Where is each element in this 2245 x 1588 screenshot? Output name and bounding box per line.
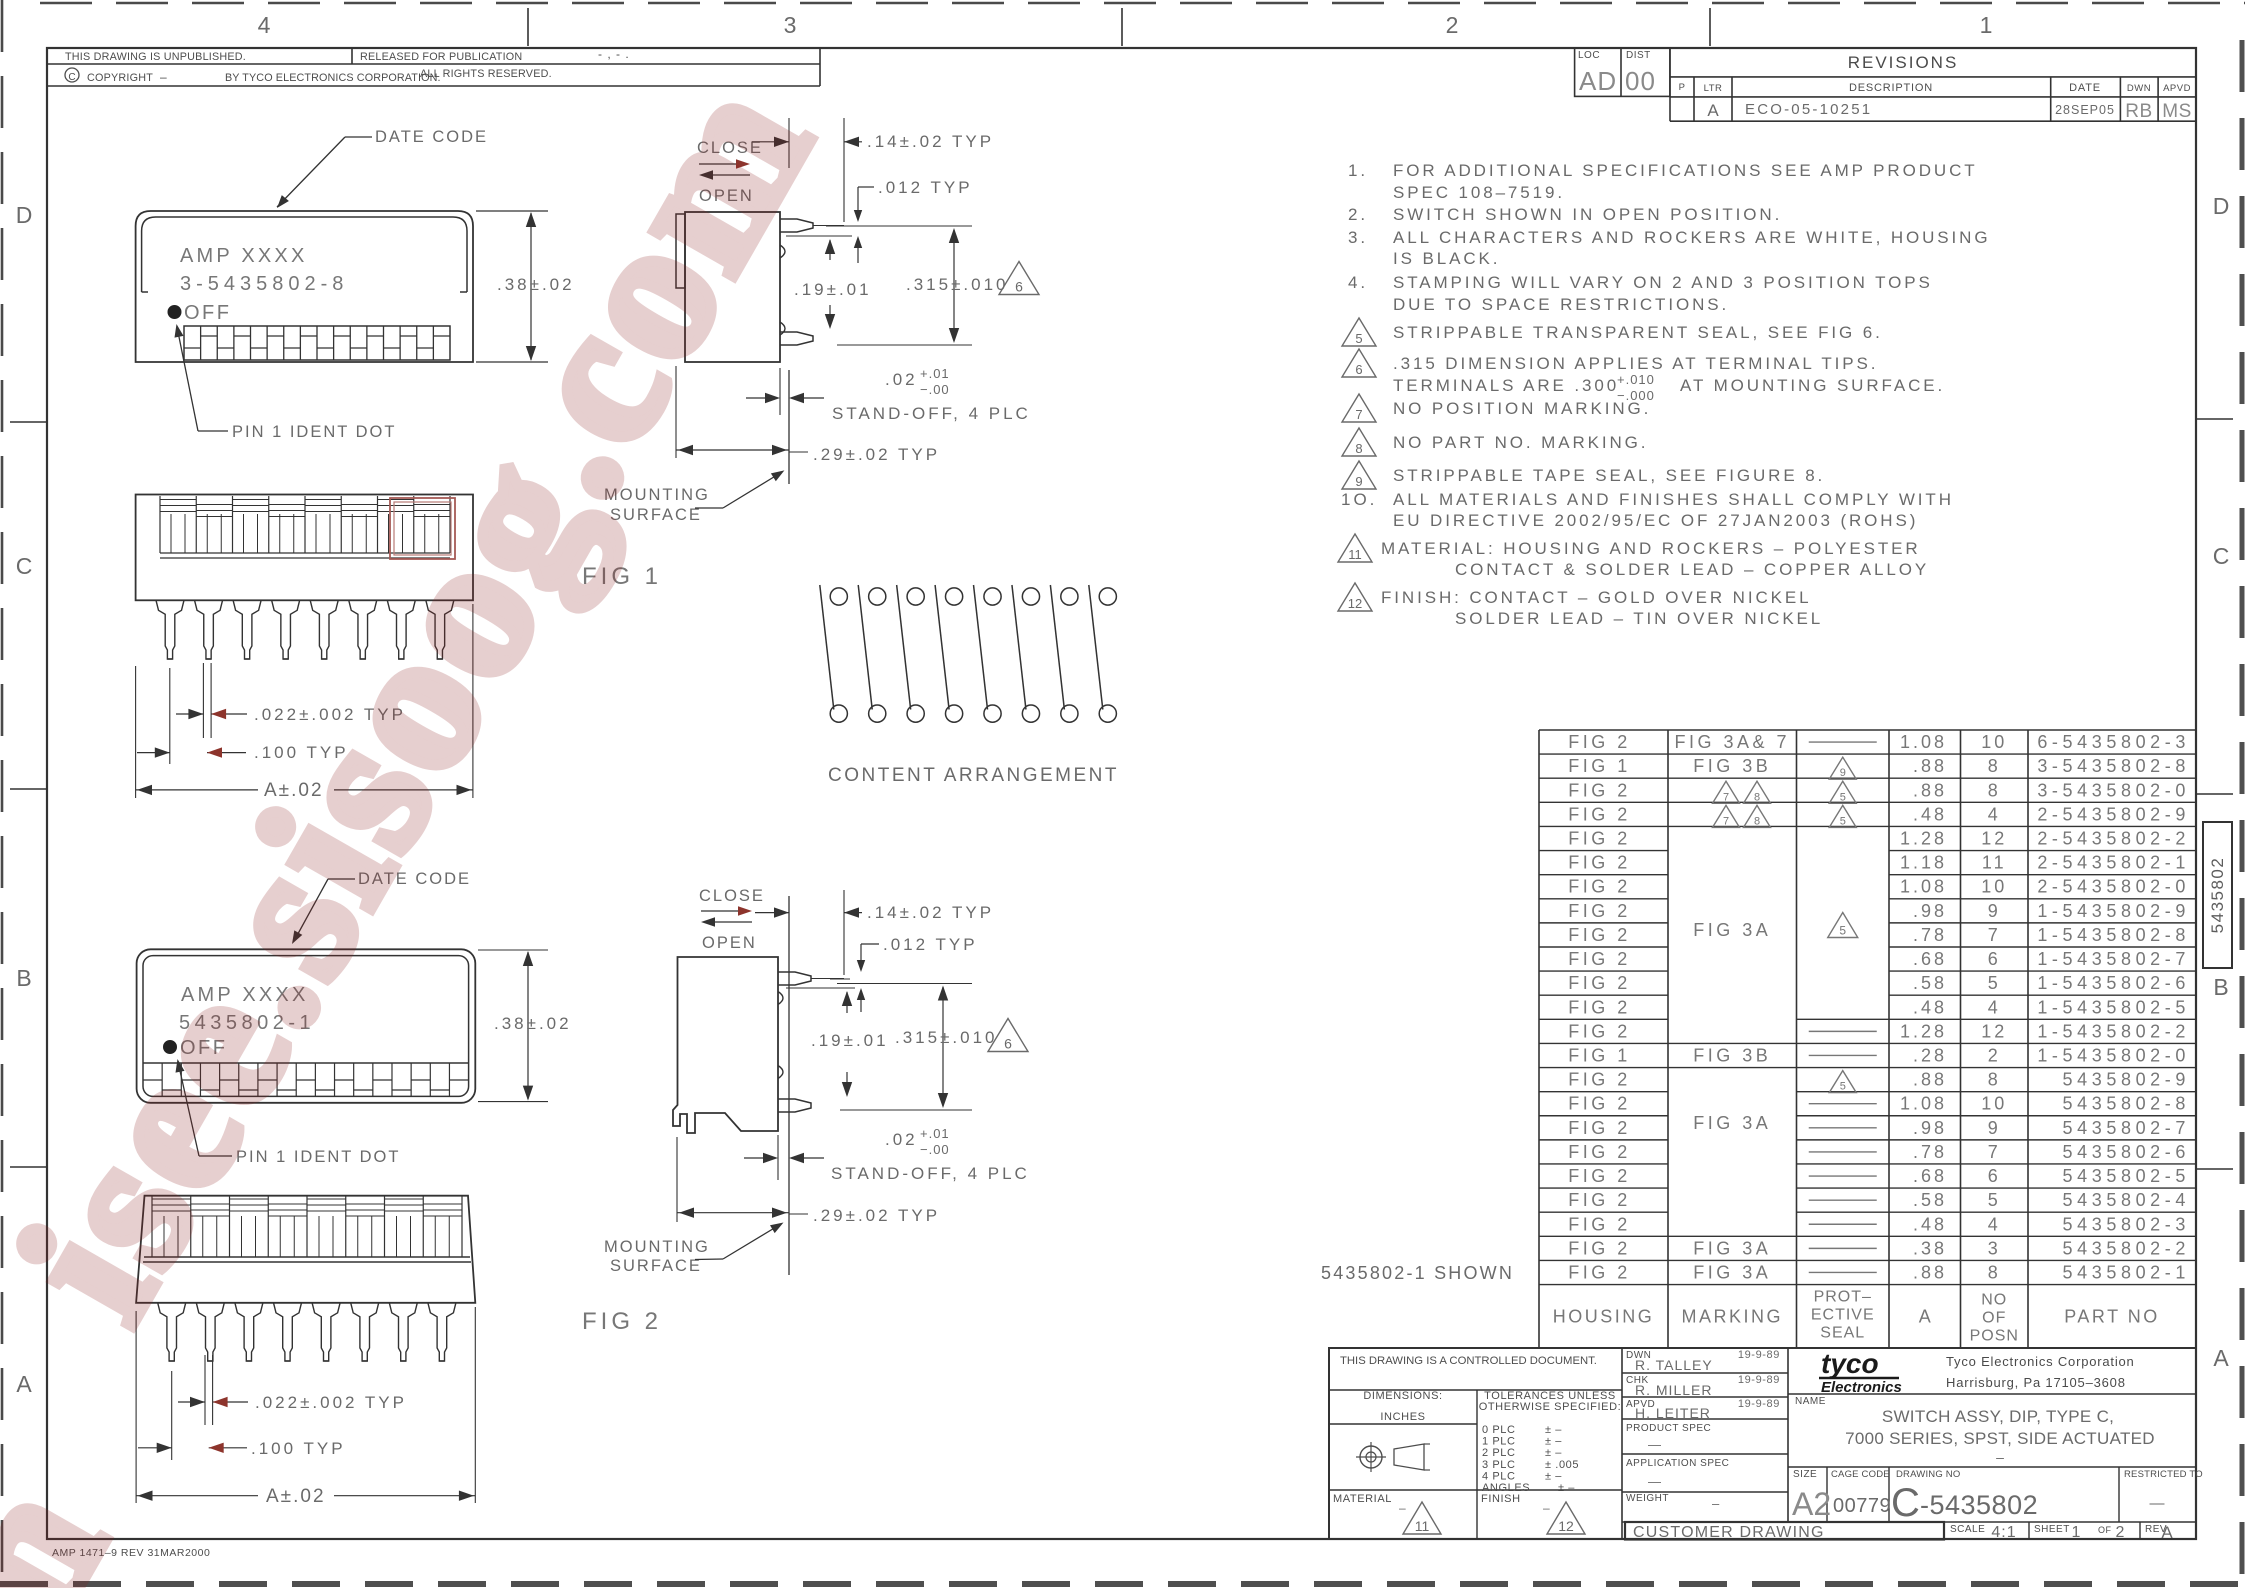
svg-text:+.010: +.010 [1617, 372, 1655, 387]
svg-text:5: 5 [1840, 815, 1846, 827]
svg-text:CLOSE: CLOSE [699, 887, 765, 905]
svg-text:CAGE CODE: CAGE CODE [1831, 1469, 1890, 1480]
svg-text:11: 11 [1982, 853, 2007, 873]
svg-text:.38±.02: .38±.02 [494, 1014, 572, 1033]
svg-text:FIG 3B: FIG 3B [1693, 1045, 1771, 1065]
svg-text:SOLDER LEAD – TIN OVER NI: SOLDER LEAD – TIN OVER NICKEL [1455, 609, 1823, 628]
svg-text:3-5435802-8: 3-5435802-8 [180, 273, 348, 295]
svg-text:5435802-4: 5435802-4 [2063, 1190, 2190, 1210]
svg-text:FIG 2: FIG 2 [1568, 1021, 1631, 1041]
svg-text:FIG 2: FIG 2 [1568, 780, 1631, 800]
svg-text:–: – [1399, 1501, 1406, 1515]
svg-text:EU DIRECTIVE 2002/95/EC OF: EU DIRECTIVE 2002/95/EC OF 27JAN2003 (RO… [1393, 511, 1918, 530]
svg-text:B: B [2213, 974, 2228, 1000]
svg-text:.98: .98 [1913, 1118, 1947, 1138]
svg-text:6: 6 [1015, 279, 1023, 295]
svg-text:tyco: tyco [1821, 1348, 1879, 1379]
svg-text:.78: .78 [1913, 1142, 1947, 1162]
svg-text:8: 8 [1988, 780, 2001, 800]
svg-text:2-5435802-9: 2-5435802-9 [2037, 804, 2190, 824]
svg-text:5435802-5: 5435802-5 [2063, 1166, 2190, 1186]
svg-text:± –: ± – [1545, 1436, 1562, 1448]
svg-text:10: 10 [1981, 732, 2007, 752]
svg-text:FIG 2: FIG 2 [1568, 1214, 1631, 1234]
svg-text:2: 2 [1988, 1045, 2001, 1065]
svg-text:AD: AD [1579, 66, 1617, 96]
svg-text:9: 9 [1355, 474, 1362, 489]
svg-text:9: 9 [1988, 1118, 2001, 1138]
svg-text:± –: ± – [1545, 1424, 1562, 1436]
svg-text:A: A [1707, 101, 1719, 120]
svg-text:3: 3 [1988, 1238, 2001, 1258]
svg-text:.38: .38 [1913, 1238, 1947, 1258]
svg-text:5435802-7: 5435802-7 [2063, 1118, 2190, 1138]
svg-text:NO: NO [1981, 1292, 2007, 1309]
svg-text:DESCRIPTION: DESCRIPTION [1849, 82, 1933, 94]
svg-text:SWITCH SHOWN IN OPEN POSIT: SWITCH SHOWN IN OPEN POSITION. [1393, 205, 1782, 224]
svg-text:.012 TYP: .012 TYP [878, 178, 973, 197]
svg-text:STRIPPABLE TAPE SEAL, SEE: STRIPPABLE TAPE SEAL, SEE FIGURE 8. [1393, 466, 1825, 485]
svg-text:6: 6 [1004, 1036, 1012, 1052]
svg-text:4: 4 [1988, 1214, 2001, 1234]
svg-text:FIG 2: FIG 2 [1568, 1094, 1631, 1114]
svg-text:LOC: LOC [1578, 50, 1600, 61]
svg-text:FIG 2: FIG 2 [1568, 973, 1631, 993]
svg-text:FIG 3B: FIG 3B [1693, 756, 1771, 776]
svg-text:2-5435802-0: 2-5435802-0 [2037, 877, 2190, 897]
svg-text:ECTIVE: ECTIVE [1811, 1307, 1875, 1324]
svg-text:SPEC 108–7519.: SPEC 108–7519. [1393, 183, 1565, 202]
svg-text:NAME: NAME [1795, 1396, 1826, 1407]
svg-text:5435802-9: 5435802-9 [2063, 1070, 2190, 1090]
svg-text:CUSTOMER DRAWING: CUSTOMER DRAWING [1633, 1524, 1825, 1541]
svg-text:5: 5 [1355, 331, 1362, 346]
svg-text:1-5435802-7: 1-5435802-7 [2037, 949, 2190, 969]
svg-text:1-5435802-6: 1-5435802-6 [2037, 973, 2190, 993]
svg-text:4.: 4. [1348, 273, 1368, 292]
svg-text:NO PART NO. MARKING.: NO PART NO. MARKING. [1393, 433, 1648, 452]
svg-text:ALL CHARACTERS AND ROCKERS: ALL CHARACTERS AND ROCKERS ARE WHITE, HO… [1393, 228, 1990, 247]
svg-text:FIG 1: FIG 1 [1568, 756, 1631, 776]
svg-text:2-5435802-2: 2-5435802-2 [2037, 828, 2190, 848]
svg-text:Harrisburg, Pa 17105–3608: Harrisburg, Pa 17105–3608 [1946, 1375, 2126, 1390]
svg-text:COPYRIGHT: COPYRIGHT [87, 72, 153, 84]
svg-text:7: 7 [1988, 1142, 2001, 1162]
svg-text:FIG 1: FIG 1 [1568, 1045, 1631, 1065]
svg-text:+.01: +.01 [920, 366, 950, 381]
svg-text:OPEN: OPEN [702, 934, 757, 952]
svg-text:INCHES: INCHES [1380, 1411, 1425, 1423]
svg-text:1.: 1. [1348, 161, 1368, 180]
svg-text:- , - .: - , - . [598, 47, 630, 61]
svg-text:5: 5 [1988, 973, 2001, 993]
svg-text:—: — [1648, 1474, 1661, 1489]
svg-text:3-5435802-0: 3-5435802-0 [2037, 780, 2190, 800]
svg-text:MARKING: MARKING [1681, 1306, 1783, 1326]
svg-text:C: C [16, 553, 33, 579]
svg-text:SURFACE: SURFACE [610, 1257, 702, 1275]
svg-text:.29±.02 TYP: .29±.02 TYP [813, 1206, 940, 1225]
svg-text:POSN: POSN [1970, 1328, 2019, 1345]
svg-text:5: 5 [1839, 924, 1846, 938]
svg-text:DIST: DIST [1626, 50, 1651, 61]
svg-text:5435802-8: 5435802-8 [2063, 1094, 2190, 1114]
svg-text:FIG 2: FIG 2 [1568, 1166, 1631, 1186]
svg-text:.58: .58 [1913, 973, 1947, 993]
svg-text:MATERIAL: HOUSING AND ROCKE: MATERIAL: HOUSING AND ROCKERS – POLYESTE… [1381, 539, 1921, 558]
svg-text:A: A [2161, 1523, 2173, 1542]
svg-text:CONTACT & SOLDER LEAD – C: CONTACT & SOLDER LEAD – COPPER ALLOY [1455, 560, 1929, 579]
svg-text:11: 11 [1415, 1518, 1430, 1534]
svg-text:FINISH: CONTACT – GOLD OVE: FINISH: CONTACT – GOLD OVER NICKEL [1381, 588, 1811, 607]
svg-text:.78: .78 [1913, 925, 1947, 945]
svg-text:SHEET: SHEET [2034, 1524, 2070, 1535]
svg-text:4: 4 [1988, 997, 2001, 1017]
svg-text:3.: 3. [1348, 228, 1368, 247]
svg-text:FIG 3A: FIG 3A [1693, 920, 1771, 940]
svg-text:THIS DRAWING IS A CONTROLL: THIS DRAWING IS A CONTROLLED DOCUMENT. [1340, 1355, 1597, 1367]
svg-text:3 PLC: 3 PLC [1482, 1459, 1516, 1471]
svg-text:+.01: +.01 [920, 1126, 950, 1141]
svg-text:9: 9 [1988, 901, 2001, 921]
svg-text:FIG 2: FIG 2 [1568, 1262, 1631, 1282]
svg-text:5435802-3: 5435802-3 [2063, 1214, 2190, 1234]
svg-text:7: 7 [1988, 925, 2001, 945]
svg-text:1-5435802-8: 1-5435802-8 [2037, 925, 2190, 945]
svg-text:DWN: DWN [2127, 83, 2151, 94]
svg-text:5435802-1 SHOWN: 5435802-1 SHOWN [1321, 1263, 1514, 1283]
svg-text:.68: .68 [1913, 949, 1947, 969]
svg-text:2: 2 [2116, 1524, 2125, 1541]
svg-text:C: C [2213, 543, 2230, 569]
svg-text:DUE TO SPACE RESTRICTIONS.: DUE TO SPACE RESTRICTIONS. [1393, 295, 1729, 314]
svg-text:00: 00 [1625, 66, 1656, 96]
svg-text:IS BLACK.: IS BLACK. [1393, 249, 1500, 268]
svg-text:PIN 1 IDENT DOT: PIN 1 IDENT DOT [232, 423, 396, 441]
svg-text:FIG 2: FIG 2 [1568, 1118, 1631, 1138]
svg-text:MATERIAL: MATERIAL [1333, 1493, 1392, 1505]
svg-text:FIG 2: FIG 2 [1568, 853, 1631, 873]
svg-text:RESTRICTED TO: RESTRICTED TO [2124, 1469, 2203, 1480]
svg-text:REVISIONS: REVISIONS [1848, 53, 1959, 72]
svg-text:7: 7 [1723, 791, 1729, 803]
svg-text:–: – [1996, 1449, 2004, 1465]
svg-text:LTR: LTR [1704, 83, 1723, 94]
svg-text:4: 4 [1988, 804, 2001, 824]
svg-text:R. MILLER: R. MILLER [1635, 1382, 1712, 1398]
svg-text:OF: OF [2098, 1525, 2112, 1535]
svg-text:FINISH: FINISH [1481, 1493, 1521, 1505]
svg-text:D: D [2213, 193, 2230, 219]
svg-text:.02: .02 [885, 1130, 918, 1149]
svg-text:00779: 00779 [1833, 1495, 1891, 1517]
svg-text:1.08: 1.08 [1900, 877, 1947, 897]
svg-text:OTHERWISE SPECIFIED:: OTHERWISE SPECIFIED: [1479, 1401, 1622, 1413]
svg-text:—: — [1648, 1437, 1661, 1452]
svg-text:.88: .88 [1913, 756, 1947, 776]
svg-text:PROT–: PROT– [1814, 1289, 1872, 1306]
svg-text:TERMINALS ARE .300: TERMINALS ARE .300 [1393, 376, 1619, 395]
svg-text:19-9-89: 19-9-89 [1738, 1398, 1780, 1410]
svg-text:7: 7 [1723, 815, 1729, 827]
svg-text:FIG 2: FIG 2 [1568, 732, 1631, 752]
svg-text:8: 8 [1988, 1070, 2001, 1090]
svg-text:OFF: OFF [184, 302, 232, 324]
svg-text:.98: .98 [1913, 901, 1947, 921]
svg-text:RELEASED FOR PUBLICATION: RELEASED FOR PUBLICATION [360, 51, 522, 63]
svg-text:5: 5 [1840, 1081, 1846, 1093]
svg-text:1-5435802-0: 1-5435802-0 [2037, 1045, 2190, 1065]
svg-text:2: 2 [1446, 12, 1459, 38]
svg-text:4 PLC: 4 PLC [1482, 1470, 1516, 1482]
svg-text:FIG 2: FIG 2 [1568, 804, 1631, 824]
svg-text:11: 11 [1348, 547, 1362, 562]
svg-text:.48: .48 [1913, 804, 1947, 824]
svg-text:.68: .68 [1913, 1166, 1947, 1186]
svg-text:8: 8 [1988, 1262, 2001, 1282]
svg-text:.14±.02 TYP: .14±.02 TYP [867, 132, 994, 151]
svg-text:FIG 3A: FIG 3A [1693, 1113, 1771, 1133]
svg-text:2 PLC: 2 PLC [1482, 1447, 1516, 1459]
svg-text:STRIPPABLE TRANSPARENT SEAL,: STRIPPABLE TRANSPARENT SEAL, SEE FIG 6. [1393, 323, 1883, 342]
svg-text:.88: .88 [1913, 780, 1947, 800]
svg-text:ECO-05-10251: ECO-05-10251 [1745, 101, 1872, 118]
svg-text:.88: .88 [1913, 1070, 1947, 1090]
svg-text:5435802: 5435802 [2208, 857, 2227, 934]
svg-text:12: 12 [1981, 1021, 2007, 1041]
svg-text:.28: .28 [1913, 1045, 1947, 1065]
svg-text:.48: .48 [1913, 1214, 1947, 1234]
svg-text:1.08: 1.08 [1900, 1094, 1947, 1114]
svg-text:—: — [2150, 1495, 2165, 1512]
svg-text:5435802-6: 5435802-6 [2063, 1142, 2190, 1162]
svg-text:3: 3 [784, 12, 797, 38]
svg-text:NO POSITION MARKING.: NO POSITION MARKING. [1393, 399, 1651, 418]
svg-text:.315±.010: .315±.010 [906, 275, 1009, 294]
svg-text:5: 5 [1840, 791, 1846, 803]
svg-text:BY TYCO ELECTRONICS CORPORATIO: BY TYCO ELECTRONICS CORPORATION. [225, 72, 441, 84]
svg-text:A2: A2 [1792, 1486, 1831, 1522]
svg-text:-5435802: -5435802 [1920, 1490, 2038, 1520]
svg-text:.88: .88 [1913, 1262, 1947, 1282]
svg-text:1.08: 1.08 [1900, 732, 1947, 752]
svg-text:APPLICATION SPEC: APPLICATION SPEC [1626, 1458, 1729, 1469]
svg-text:± –: ± – [1545, 1470, 1562, 1482]
svg-text:FIG 2: FIG 2 [1568, 1070, 1631, 1090]
svg-text:MS: MS [2162, 101, 2192, 122]
svg-text:.315 DIMENSION APPLIES AT: .315 DIMENSION APPLIES AT TERMINAL TIPS. [1393, 354, 1878, 373]
svg-text:10: 10 [1981, 1094, 2007, 1114]
svg-text:FIG 2: FIG 2 [1568, 1238, 1631, 1258]
svg-text:FIG 2: FIG 2 [1568, 1190, 1631, 1210]
svg-text:STAMPING WILL VARY ON 2 A: STAMPING WILL VARY ON 2 AND 3 POSITION T… [1393, 273, 1933, 292]
svg-text:STAND-OFF, 4 PLC: STAND-OFF, 4 PLC [831, 1164, 1030, 1183]
svg-text:8: 8 [1754, 815, 1760, 827]
svg-text:2-5435802-1: 2-5435802-1 [2037, 853, 2190, 873]
svg-text:−.00: −.00 [920, 1142, 950, 1157]
svg-text:28SEP05: 28SEP05 [2055, 103, 2115, 117]
svg-text:H. LEITER: H. LEITER [1635, 1405, 1711, 1421]
svg-text:SWITCH ASSY, DIP, TYPE C,: SWITCH ASSY, DIP, TYPE C, [1882, 1407, 2114, 1426]
svg-text:A: A [16, 1371, 32, 1397]
svg-text:± –: ± – [1558, 1482, 1575, 1494]
svg-text:APVD: APVD [2163, 83, 2191, 94]
svg-text:.19±.01: .19±.01 [794, 280, 872, 299]
svg-text:C: C [1891, 1481, 1920, 1525]
svg-text:12: 12 [1981, 828, 2007, 848]
svg-text:D: D [16, 202, 33, 228]
svg-text:FIG 2: FIG 2 [1568, 901, 1631, 921]
svg-text:A: A [1919, 1306, 1931, 1326]
svg-text:2.: 2. [1348, 205, 1368, 224]
svg-text:1.28: 1.28 [1900, 1021, 1947, 1041]
svg-text:FIG 2: FIG 2 [1568, 877, 1631, 897]
svg-text:DATE CODE: DATE CODE [375, 128, 488, 146]
svg-text:−.00: −.00 [920, 382, 950, 397]
svg-text:6: 6 [1355, 362, 1362, 377]
svg-text:3-5435802-8: 3-5435802-8 [2037, 756, 2190, 776]
svg-text:19-9-89: 19-9-89 [1738, 1349, 1780, 1361]
svg-text:6: 6 [1988, 1166, 2001, 1186]
svg-text:.02: .02 [885, 370, 918, 389]
svg-text:A: A [2213, 1345, 2229, 1371]
svg-text:5435802-1: 5435802-1 [2063, 1262, 2190, 1282]
svg-text:THIS DRAWING IS UNPUBLISHED: THIS DRAWING IS UNPUBLISHED. [65, 51, 246, 63]
svg-text:7000 SERIES, SPST, SIDE AC: 7000 SERIES, SPST, SIDE ACTUATED [1845, 1429, 2155, 1448]
svg-text:Tyco Electronics Corporation: Tyco Electronics Corporation [1946, 1354, 2135, 1369]
svg-text:FIG 3A: FIG 3A [1693, 1238, 1771, 1258]
svg-text:AT MOUNTING SURFACE.: AT MOUNTING SURFACE. [1680, 376, 1945, 395]
svg-text:0 PLC: 0 PLC [1482, 1424, 1516, 1436]
svg-text:6-5435802-3: 6-5435802-3 [2037, 732, 2190, 752]
svg-text:FIG 2: FIG 2 [1568, 828, 1631, 848]
svg-text:.022±.002 TYP: .022±.002 TYP [255, 1393, 407, 1412]
svg-text:8: 8 [1355, 441, 1362, 456]
svg-text:.29±.02 TYP: .29±.02 TYP [813, 445, 940, 464]
svg-text:1 PLC: 1 PLC [1482, 1436, 1516, 1448]
svg-text:1-5435802-5: 1-5435802-5 [2037, 997, 2190, 1017]
svg-text:1: 1 [1980, 12, 1993, 38]
svg-text:5: 5 [1988, 1190, 2001, 1210]
svg-text:1.28: 1.28 [1900, 828, 1947, 848]
svg-text:DIMENSIONS:: DIMENSIONS: [1363, 1390, 1442, 1402]
svg-text:FIG 2: FIG 2 [1568, 925, 1631, 945]
svg-text:A±.02: A±.02 [266, 1486, 326, 1507]
svg-text:STAND-OFF, 4 PLC: STAND-OFF, 4 PLC [832, 404, 1031, 423]
svg-text:FIG 2: FIG 2 [582, 1308, 662, 1335]
svg-text:DRAWING NO: DRAWING NO [1896, 1469, 1960, 1480]
svg-text:1: 1 [2072, 1524, 2081, 1541]
svg-text:FIG 3A: FIG 3A [1693, 1262, 1771, 1282]
svg-text:–: – [1543, 1501, 1550, 1515]
svg-text:SEAL: SEAL [1820, 1325, 1865, 1342]
svg-text:C: C [68, 72, 75, 83]
svg-text:FIG 2: FIG 2 [1568, 997, 1631, 1017]
svg-text:.14±.02 TYP: .14±.02 TYP [867, 903, 994, 922]
svg-text:1-5435802-2: 1-5435802-2 [2037, 1021, 2190, 1041]
svg-text:DATE: DATE [2069, 82, 2101, 94]
svg-text:WEIGHT: WEIGHT [1626, 1493, 1669, 1504]
svg-text:CONTENT ARRANGEMENT: CONTENT ARRANGEMENT [828, 765, 1119, 786]
svg-text:–: – [160, 70, 167, 84]
svg-text:.48: .48 [1913, 997, 1947, 1017]
svg-text:8: 8 [1988, 756, 2001, 776]
svg-text:MOUNTING: MOUNTING [604, 1238, 710, 1256]
svg-text:SIZE: SIZE [1793, 1469, 1817, 1480]
svg-text:ALL MATERIALS AND FINISHES: ALL MATERIALS AND FINISHES SHALL COMPLY … [1393, 490, 1954, 509]
svg-text:–: – [1712, 1496, 1720, 1511]
svg-text:PART NO: PART NO [2064, 1306, 2160, 1326]
svg-text:.100 TYP: .100 TYP [251, 1439, 346, 1458]
svg-text:7: 7 [1355, 407, 1362, 422]
svg-text:19-9-89: 19-9-89 [1738, 1374, 1780, 1386]
svg-text:4: 4 [258, 12, 271, 38]
svg-text:5435802-2: 5435802-2 [2063, 1238, 2190, 1258]
svg-text:1O.: 1O. [1341, 490, 1377, 509]
svg-text:.012 TYP: .012 TYP [883, 935, 978, 954]
svg-text:10: 10 [1981, 877, 2007, 897]
svg-text:P: P [1679, 82, 1686, 93]
svg-text:AMP XXXX: AMP XXXX [180, 245, 308, 267]
svg-text:9: 9 [1840, 767, 1846, 779]
svg-text:1-5435802-9: 1-5435802-9 [2037, 901, 2190, 921]
svg-text:± –: ± – [1545, 1447, 1562, 1459]
svg-text:.19±.01: .19±.01 [811, 1031, 889, 1050]
svg-text:.58: .58 [1913, 1190, 1947, 1210]
svg-text:ALL RIGHTS RESERVED.: ALL RIGHTS RESERVED. [420, 68, 552, 80]
svg-text:RB: RB [2125, 101, 2152, 122]
svg-text:FIG 3A& 7: FIG 3A& 7 [1674, 732, 1790, 752]
svg-text:FIG 2: FIG 2 [1568, 1142, 1631, 1162]
svg-text:PRODUCT SPEC: PRODUCT SPEC [1626, 1423, 1711, 1434]
svg-text:± .005: ± .005 [1545, 1459, 1579, 1471]
svg-text:12: 12 [1348, 596, 1362, 611]
svg-text:4:1: 4:1 [1991, 1524, 2016, 1541]
svg-text:6: 6 [1988, 949, 2001, 969]
svg-text:FOR ADDITIONAL SPECIFICATION: FOR ADDITIONAL SPECIFICATIONS SEE AMP PR… [1393, 161, 1978, 180]
svg-text:SCALE: SCALE [1950, 1524, 1985, 1535]
svg-text:OF: OF [1982, 1310, 2006, 1327]
svg-text:1.18: 1.18 [1900, 853, 1947, 873]
svg-text:HOUSING: HOUSING [1553, 1306, 1655, 1326]
svg-text:R. TALLEY: R. TALLEY [1635, 1357, 1713, 1373]
svg-text:.315±.010: .315±.010 [895, 1028, 998, 1047]
svg-text:B: B [16, 965, 31, 991]
svg-text:FIG 2: FIG 2 [1568, 949, 1631, 969]
svg-text:8: 8 [1754, 791, 1760, 803]
svg-text:12: 12 [1558, 1518, 1574, 1534]
